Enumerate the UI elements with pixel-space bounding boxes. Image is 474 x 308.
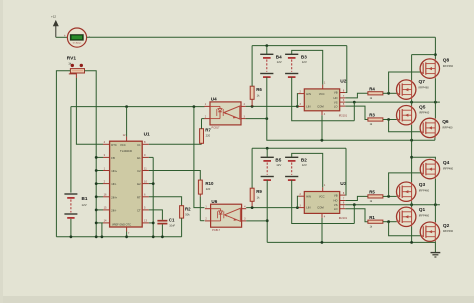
wire CT row to C1 — [149, 210, 163, 220]
wire R5 to Q3/Q4 gates — [383, 173, 421, 198]
optocoupler U6 PC817 — [205, 199, 246, 232]
ammeter (DC Amps) — [64, 28, 90, 47]
ground — [431, 253, 441, 257]
wire Q3 source / Q1 drain — [411, 201, 413, 207]
svg-text:RT: RT — [137, 195, 141, 199]
transistor Q7 — [397, 79, 430, 99]
svg-text:Q5: Q5 — [419, 104, 426, 110]
svg-text:IRFP460: IRFP460 — [419, 85, 430, 89]
svg-text:IR2101: IR2101 — [339, 216, 348, 220]
svg-text:50k: 50k — [185, 213, 190, 217]
wire B4- to low node — [267, 77, 435, 142]
op-amp U1 TL494CD — [103, 132, 150, 237]
svg-text:VB: VB — [334, 91, 338, 95]
node U6 anode feed tap — [193, 105, 196, 108]
rail junctions — [70, 235, 164, 238]
svg-text:VB: VB — [334, 193, 338, 197]
svg-text:R5: R5 — [369, 190, 375, 195]
wire Q8 source / Q6 drain — [434, 78, 436, 118]
node bus/Q7 drain — [434, 53, 437, 56]
transistor Q4 — [420, 159, 453, 178]
svg-text:R2: R2 — [185, 207, 191, 212]
svg-text:B2: B2 — [301, 158, 307, 163]
svg-text:LIN: LIN — [306, 206, 310, 210]
wire C2 row to R10 — [149, 171, 200, 181]
svg-text:U4: U4 — [211, 97, 217, 102]
svg-text:IR2101: IR2101 — [339, 114, 348, 118]
transistor Q8 — [420, 58, 453, 79]
resistor R9 1k — [250, 188, 262, 207]
wire B5- to return — [266, 180, 269, 242]
svg-text:R9: R9 — [256, 189, 262, 194]
svg-text:2IN-: 2IN- — [111, 209, 116, 213]
svg-text:1IN-: 1IN- — [111, 182, 116, 186]
svg-text:Q7: Q7 — [419, 79, 426, 85]
svg-text:PC817: PC817 — [212, 228, 220, 232]
svg-text:LIN: LIN — [306, 104, 310, 108]
resistor R3 — [368, 113, 383, 127]
gate driver U3 IR2101 — [298, 181, 347, 220]
wire — [56, 36, 68, 38]
wire Q4 source / Q2 drain — [434, 179, 436, 222]
potentiometer RV1 — [67, 56, 85, 79]
svg-text:B4: B4 — [276, 55, 282, 60]
svg-text:C1: C1 — [169, 218, 175, 223]
svg-text:IRFP460: IRFP460 — [419, 213, 430, 217]
wire B3- to VS — [292, 77, 355, 121]
svg-text:Q8: Q8 — [443, 58, 450, 64]
svg-text:+12: +12 — [51, 15, 56, 19]
wire mid-bus to bottom bridge — [410, 140, 435, 182]
wire U4 out to U2 HIN/LIN — [246, 94, 299, 108]
wire U6 out to U3 HIN/LIN — [246, 196, 299, 209]
svg-text:B1: B1 — [82, 196, 88, 201]
svg-text:VCC: VCC — [120, 143, 126, 147]
svg-text:+: + — [64, 34, 66, 38]
resistor R5 — [368, 190, 383, 204]
svg-text:C2: C2 — [137, 169, 141, 173]
transistor Q2 — [420, 222, 453, 241]
svg-text:VCC: VCC — [319, 195, 325, 199]
wire U2 HO to R4 — [345, 93, 368, 98]
svg-text:TL494CD: TL494CD — [120, 149, 132, 153]
transistor Q5 — [397, 104, 430, 125]
wire U3 VS phase line B — [345, 203, 440, 223]
svg-text:VS: VS — [334, 203, 338, 207]
wire U1 input ties — [95, 156, 103, 237]
wire U2 COM — [321, 115, 323, 140]
svg-text:IRFP460: IRFP460 — [442, 125, 453, 129]
wire top bus — [87, 36, 436, 38]
svg-text:R10: R10 — [205, 181, 214, 186]
resistor R10 220 — [198, 180, 214, 221]
wire Q7 drain to bus — [412, 55, 436, 81]
svg-text:IRFP460: IRFP460 — [443, 64, 454, 68]
wire E1/E2 to rail — [149, 157, 155, 236]
capacitor C1 10nF — [157, 218, 175, 237]
svg-text:VS: VS — [334, 100, 338, 104]
svg-text:IRFP460: IRFP460 — [443, 166, 454, 170]
svg-text:220: 220 — [206, 134, 211, 138]
wire RV1 right leg — [85, 71, 97, 237]
wire R4 to Q7/Q8 gates — [383, 72, 421, 95]
wire B4+ rail — [252, 44, 347, 92]
svg-text:PC817: PC817 — [212, 126, 220, 130]
wire U6 pin3 to B5- node — [246, 220, 267, 222]
wire bus drop to Q8 drain — [434, 37, 436, 59]
svg-text:12V: 12V — [277, 60, 282, 64]
resistor R7 220 — [200, 119, 212, 145]
resistor R6 1k — [250, 86, 262, 106]
svg-text:12V: 12V — [302, 163, 307, 167]
svg-text:IRFP460: IRFP460 — [419, 188, 430, 192]
wire Q1 source — [411, 227, 413, 243]
transistor Q3 — [397, 182, 430, 201]
svg-text:FB: FB — [111, 156, 115, 160]
svg-text:R3: R3 — [369, 113, 375, 118]
svg-text:Q6: Q6 — [442, 119, 449, 125]
svg-text:R4: R4 — [369, 86, 375, 91]
svg-text:R1: R1 — [369, 215, 375, 220]
svg-text:HIN: HIN — [306, 92, 311, 96]
wire Q5 source — [411, 125, 413, 140]
wire U2 VS phase line — [345, 101, 440, 121]
wire B5+ rail — [252, 147, 346, 195]
resistor R4 — [368, 86, 383, 100]
svg-text:U6: U6 — [211, 199, 217, 204]
wire RV1 left leg — [56, 71, 70, 237]
svg-text:Q1: Q1 — [419, 207, 426, 213]
svg-text:LO: LO — [334, 104, 338, 108]
svg-text:IRFP460: IRFP460 — [419, 111, 430, 115]
wire U1 VCC pin 12 — [123, 107, 127, 142]
battery B5 12V — [261, 148, 282, 180]
wire U4 pin3 to B4- node — [246, 117, 269, 120]
wire ground rail — [56, 236, 181, 238]
svg-text:R6: R6 — [256, 87, 262, 92]
resistor R1 — [368, 215, 383, 229]
wire C1 row to R7 — [149, 143, 202, 145]
svg-text:VREF GND OTC: VREF GND OTC — [112, 223, 131, 226]
gate driver U2 IR2101 — [298, 78, 347, 117]
wire R1 to Q1/Q2 gates — [383, 220, 421, 236]
svg-text:VCC: VCC — [319, 92, 325, 96]
svg-text:HO: HO — [333, 199, 337, 203]
svg-text:E1: E1 — [137, 156, 141, 160]
svg-text:1IN+: 1IN+ — [111, 169, 117, 173]
wire U3 COM — [321, 218, 323, 243]
battery B4 12V — [260, 46, 282, 78]
wire U6 anode feed — [194, 107, 205, 208]
optocoupler U4 PC817 — [204, 97, 245, 130]
svg-text:HIN: HIN — [306, 195, 311, 199]
battery B3 12V — [285, 50, 323, 84]
svg-text:B3: B3 — [301, 55, 307, 60]
wire R3 to Q5/Q6 gates — [383, 118, 421, 132]
wire RT row to R2 — [149, 197, 182, 206]
svg-text:Q4: Q4 — [443, 160, 450, 166]
wire return line — [267, 241, 435, 244]
svg-text:12V: 12V — [276, 163, 281, 167]
wire U3 LO to R1 — [345, 209, 368, 222]
wire +12 node horizontal — [71, 106, 205, 108]
svg-text:IRFP460: IRFP460 — [443, 229, 454, 233]
svg-text:C1: C1 — [137, 143, 141, 147]
battery B1 12V — [64, 194, 87, 237]
svg-text:10nF: 10nF — [169, 224, 175, 228]
svg-text:Q3: Q3 — [419, 182, 426, 188]
wire RV1 wiper to DTC — [76, 78, 103, 144]
svg-text:B5: B5 — [275, 158, 281, 163]
node U1 VCC tap — [125, 105, 128, 108]
resistor R2 50k — [180, 206, 192, 237]
svg-text:U1: U1 — [144, 132, 150, 138]
transistor Q6 — [420, 118, 453, 137]
wire +12 node to B1 — [70, 107, 72, 193]
svg-text:COM: COM — [317, 104, 324, 108]
wire Q7 source / Q5 drain — [411, 99, 413, 105]
battery B2 12V — [285, 153, 323, 187]
svg-text:220: 220 — [206, 187, 211, 191]
svg-text:LO: LO — [334, 207, 338, 211]
svg-text:HO: HO — [333, 96, 337, 100]
svg-text:COM: COM — [317, 206, 324, 210]
svg-text:DC Amps: DC Amps — [73, 41, 81, 44]
power terminal +12 — [51, 15, 58, 38]
svg-text:U2: U2 — [340, 78, 346, 84]
wire U3 HO to R5 — [345, 196, 368, 200]
svg-text:12V: 12V — [82, 203, 87, 207]
wire Q2 source to ground — [434, 241, 436, 252]
svg-text:DTC: DTC — [111, 143, 117, 147]
svg-text:CT: CT — [137, 209, 141, 213]
wire B2- to VS B — [292, 180, 355, 223]
transistor Q1 — [397, 207, 430, 227]
svg-text:E2: E2 — [137, 182, 141, 186]
svg-text:12V: 12V — [302, 60, 307, 64]
svg-text:R7: R7 — [205, 127, 211, 132]
wire U2 LO to R3 — [345, 106, 368, 119]
svg-text:Q2: Q2 — [443, 223, 450, 229]
svg-text:2IN+: 2IN+ — [111, 195, 117, 199]
